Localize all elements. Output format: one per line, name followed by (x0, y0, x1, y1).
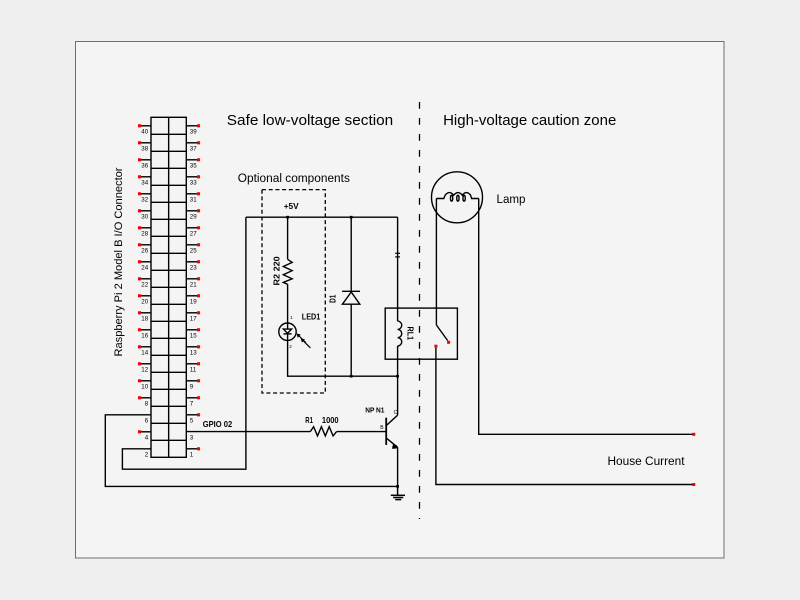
svg-text:31: 31 (190, 196, 197, 203)
svg-text:11: 11 (190, 366, 197, 373)
svg-text:35: 35 (190, 162, 197, 169)
pin 33 stub (186, 175, 200, 186)
pin 15 stub (186, 328, 200, 339)
pin 19 stub (186, 294, 200, 305)
pin 35 stub (186, 158, 200, 169)
junction: return rail to collector wire (396, 375, 399, 378)
wire: relay coil bottom to transistor collector (397, 346, 399, 415)
svg-text:32: 32 (141, 196, 148, 203)
wire: R1 to transistor base (337, 431, 387, 433)
pin 21 stub (186, 277, 200, 288)
wire: relay contact to house current (bottom) (436, 348, 694, 485)
svg-text:R2 220: R2 220 (272, 256, 282, 286)
svg-text:Optional components: Optional components (238, 171, 350, 185)
pin 1 stub (186, 447, 200, 458)
svg-text:33: 33 (190, 179, 197, 186)
svg-text:16: 16 (141, 332, 148, 339)
pin 18 stub (138, 311, 151, 322)
pin 10 stub (138, 379, 151, 390)
wire: ground loop from pin 6 to ground rail (105, 415, 397, 487)
pin 26 stub (138, 243, 151, 254)
pin 11 stub (186, 362, 200, 373)
wire: GPIO signal from pin 3 to R1 (186, 431, 310, 433)
svg-text:21: 21 (190, 281, 197, 288)
svg-text:23: 23 (190, 264, 197, 271)
pin 29 stub (186, 209, 200, 220)
svg-text:1: 1 (290, 315, 293, 320)
svg-text:27: 27 (190, 230, 197, 237)
junction: R2 tap on +5V rail (286, 216, 289, 219)
pin 5 stub (186, 413, 200, 424)
svg-text:High-voltage caution zone: High-voltage caution zone (443, 112, 616, 129)
svg-text:37: 37 (190, 145, 197, 152)
junction: D1 on return rail (350, 375, 353, 378)
svg-text:GPIO 02: GPIO 02 (203, 419, 233, 429)
svg-text:Raspberry Pi 2 Model B I/O Con: Raspberry Pi 2 Model B I/O Connector (113, 167, 125, 356)
svg-text:1: 1 (190, 451, 194, 458)
pin 27 stub (186, 226, 200, 237)
wire crossover ticks on coil feed (395, 253, 400, 257)
pin 7 stub (186, 396, 200, 407)
pin 40 stub (138, 124, 151, 135)
svg-text:22: 22 (141, 281, 148, 288)
svg-text:5: 5 (190, 417, 194, 424)
svg-text:Lamp: Lamp (497, 192, 526, 206)
pin 17 stub (186, 311, 200, 322)
pin 31 stub (186, 192, 200, 203)
connector J1: Raspberry Pi 40-pin header grid (151, 117, 186, 457)
svg-text:Safe low-voltage section: Safe low-voltage section (227, 112, 393, 129)
LED LED1 (circle, diode symbol, emission arrows) (279, 323, 311, 348)
svg-text:D1: D1 (327, 294, 337, 303)
pin 34 stub (138, 175, 151, 186)
relay switch armature and contacts (434, 325, 450, 348)
pin 37 stub (186, 141, 200, 152)
svg-text:10: 10 (141, 383, 148, 390)
pin 12 stub (138, 362, 151, 373)
svg-text:14: 14 (141, 349, 148, 356)
svg-text:2: 2 (289, 344, 292, 349)
svg-text:7: 7 (190, 400, 194, 407)
wire: emitter to ground rail (397, 447, 399, 486)
dashed separator between low and high voltage zones (419, 102, 421, 519)
svg-text:20: 20 (141, 298, 148, 305)
pin 16 stub (138, 328, 151, 339)
pin 6 stub (wired) (145, 417, 149, 424)
pin 8 stub (138, 396, 151, 407)
wire: 5V feed from pin 2 (left, down, right, up to +5V rail) (122, 217, 245, 469)
pin 4 stub (138, 430, 151, 441)
svg-text:LED1: LED1 (302, 313, 321, 322)
svg-text:8: 8 (145, 400, 149, 407)
junction: D1 tap on +5V rail (350, 216, 353, 219)
pin 23 stub (186, 260, 200, 271)
pin 2 stub (wired) (145, 451, 149, 458)
svg-text:30: 30 (141, 213, 148, 220)
svg-text:C: C (394, 410, 398, 416)
transistor terminal letters C B E (380, 410, 398, 451)
pin 32 stub (138, 192, 151, 203)
junction: emitter/ground rail (396, 485, 399, 488)
pin 39 stub (186, 124, 200, 135)
pin 22 stub (138, 277, 151, 288)
terminal: house current top (692, 433, 695, 436)
svg-text:28: 28 (141, 230, 148, 237)
pin 28 stub (138, 226, 151, 237)
pin 13 stub (186, 345, 200, 356)
svg-text:3: 3 (190, 434, 194, 441)
optional components dashed box (262, 190, 325, 393)
svg-text:36: 36 (141, 162, 148, 169)
pin 20 stub (138, 294, 151, 305)
svg-text:15: 15 (190, 332, 197, 339)
svg-text:13: 13 (190, 349, 197, 356)
svg-text:4: 4 (145, 434, 149, 441)
wire: R2 to LED1 (287, 284, 289, 323)
relay RL1 coil (398, 321, 402, 346)
svg-text:26: 26 (141, 247, 148, 254)
pin 25 stub (186, 243, 200, 254)
pin 36 stub (138, 158, 151, 169)
svg-text:House Current: House Current (608, 454, 686, 468)
transistor Q1 NPN (386, 415, 398, 449)
svg-text:R1: R1 (305, 415, 313, 425)
svg-text:25: 25 (190, 247, 197, 254)
resistor R2 zigzag (vertical) (283, 259, 292, 284)
svg-text:12: 12 (141, 366, 148, 373)
wire: +5V rail down to relay coil (397, 217, 399, 321)
wire: lamp left lead to relay switch pivot (435, 199, 437, 325)
svg-text:2: 2 (145, 451, 149, 458)
relay RL1 body box (385, 308, 457, 359)
pin 24 stub (138, 260, 151, 271)
pin 30 stub (138, 209, 151, 220)
svg-text:24: 24 (141, 264, 148, 271)
svg-text:19: 19 (190, 298, 197, 305)
terminal: house current bottom (692, 483, 695, 486)
svg-text:9: 9 (190, 383, 194, 390)
svg-text:NP N1: NP N1 (365, 406, 384, 415)
wire: +5V rail (246, 216, 398, 218)
wire: +5V rail to R2 (287, 217, 289, 259)
svg-text:+5V: +5V (284, 201, 299, 211)
svg-text:1000: 1000 (322, 415, 339, 425)
wire: lamp right lead to house current (top) (479, 199, 694, 435)
label: R1 value 1000 (305, 415, 339, 425)
svg-text:6: 6 (145, 417, 149, 424)
wire: +5V rail to D1 cathode (350, 217, 352, 291)
lamp (circle with filament coil) (432, 172, 483, 223)
svg-text:18: 18 (141, 315, 148, 322)
ground symbol (391, 486, 405, 499)
pin 3 stub (wired to GPIO) (190, 434, 194, 441)
pin 38 stub (138, 141, 151, 152)
pin 9 stub (186, 379, 200, 390)
diode D1 (cathode bar top, triangle pointing up) (342, 291, 360, 376)
svg-text:29: 29 (190, 213, 197, 220)
wire: LED1 to return rail (288, 340, 398, 376)
svg-text:34: 34 (141, 179, 148, 186)
LED pin numbers 1 and 2 (289, 315, 293, 349)
svg-text:40: 40 (141, 128, 148, 135)
pin 14 stub (138, 345, 151, 356)
svg-text:39: 39 (190, 128, 197, 135)
resistor R1 zigzag (310, 427, 336, 436)
svg-text:38: 38 (141, 145, 148, 152)
svg-text:17: 17 (190, 315, 197, 322)
svg-text:RL1: RL1 (405, 327, 415, 341)
